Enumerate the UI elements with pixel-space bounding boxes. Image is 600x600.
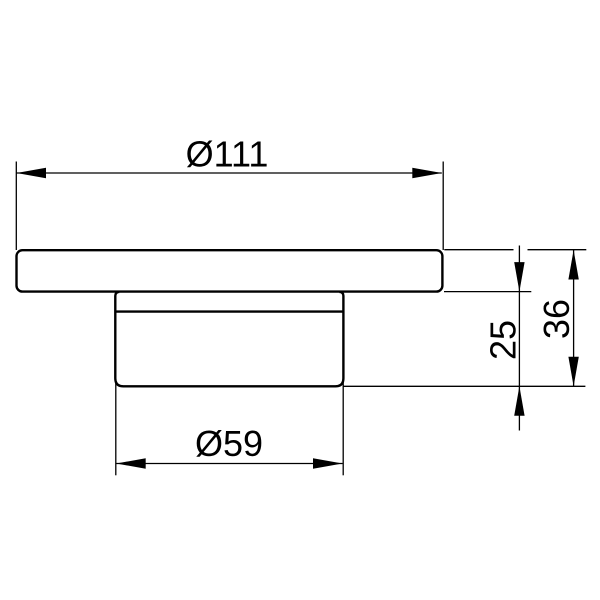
dim 36 lower arrowhead (points down) [568, 357, 578, 387]
cup-bottom level extension line [344, 385, 586, 387]
dim 59 right arrowhead [313, 458, 343, 468]
dim 111 left extension line [15, 162, 17, 251]
dim 59 value label [195, 423, 263, 464]
dim 59 dimension line [116, 463, 342, 465]
dim 25 lower arrowhead (points up) [514, 386, 524, 416]
cup outline [115, 292, 343, 386]
plate-top level extension line (left segment) [444, 249, 513, 251]
dim 36 value label [536, 299, 577, 339]
dim 111 right arrowhead [412, 168, 442, 178]
svg-text:Ø111: Ø111 [186, 134, 269, 175]
svg-text:36: 36 [536, 299, 577, 339]
dim 25 upper arrowhead (points down) [514, 262, 524, 292]
dim 59 right extension line [342, 378, 344, 475]
dim 36 dimension line [573, 250, 575, 386]
dim 111 dimension line [17, 172, 442, 174]
dim 111 value label [186, 134, 269, 175]
plate-bottom level extension line [444, 291, 531, 293]
dim 36 upper arrowhead (points up) [568, 250, 578, 280]
svg-text:25: 25 [482, 320, 523, 360]
svg-text:Ø59: Ø59 [195, 423, 263, 464]
plate outline [17, 250, 443, 291]
dim 59 left arrowhead [116, 458, 146, 468]
dim 25 value label [482, 320, 523, 360]
dim 59 left extension line [115, 380, 117, 475]
dim 111 left arrowhead [17, 168, 47, 178]
plate-top level extension line (right segment) [528, 249, 587, 251]
dim 111 right extension line [442, 162, 444, 251]
cup inner rim line [115, 310, 343, 312]
dim 25 dimension line [518, 246, 520, 431]
